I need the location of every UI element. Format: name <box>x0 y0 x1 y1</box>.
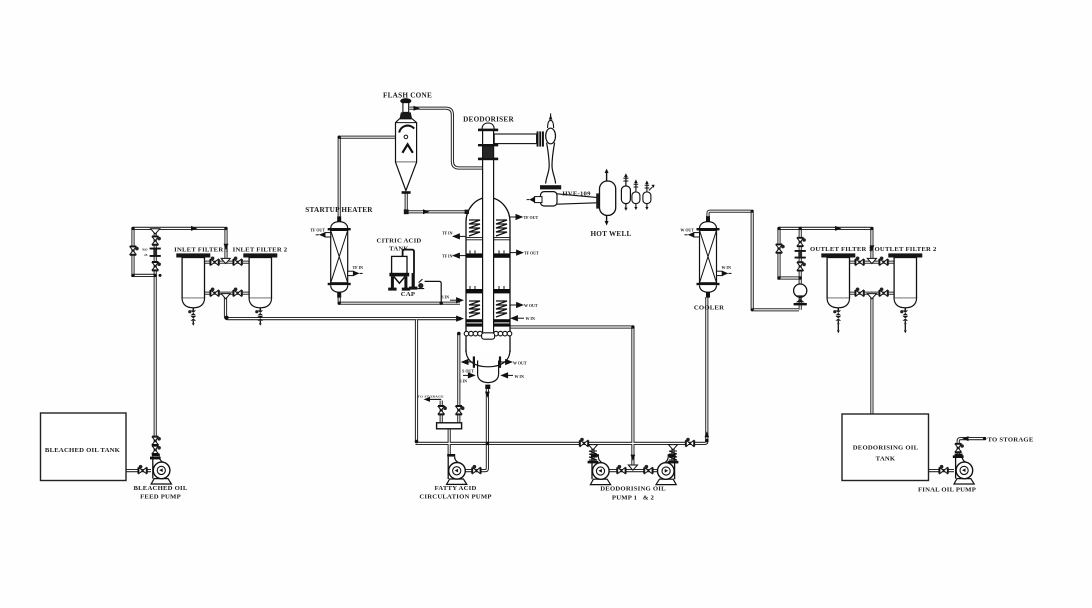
valve inlet riser lower <box>152 262 161 271</box>
deodorising oil tank <box>842 414 929 481</box>
valve outlet bypass stack lower <box>797 262 806 271</box>
svg-text:FINAL OIL PUMP: FINAL OIL PUMP <box>918 487 976 494</box>
wire storage takeoff drop <box>440 401 443 424</box>
valve inlet ic bottom left <box>210 288 219 297</box>
svg-text:W IN: W IN <box>526 316 535 321</box>
wire outlet bypass loop <box>779 228 800 278</box>
arrow cooler riser up <box>705 431 710 437</box>
coil pump2 <box>669 451 677 460</box>
wire inlet filters bottom interconnect <box>204 292 250 295</box>
svg-text:BLEACHED OIL TANK: BLEACHED OIL TANK <box>45 447 121 454</box>
svg-text:TANK: TANK <box>876 456 896 463</box>
valve inlet manifold funnel <box>151 229 160 234</box>
svg-text:W IN: W IN <box>515 374 524 379</box>
valve inlet riser upper <box>152 236 161 245</box>
arrow final discharge <box>962 436 968 441</box>
column top cap and demister <box>482 123 494 129</box>
coil pump1 <box>589 451 597 460</box>
wire oil feed line to column <box>226 296 462 319</box>
wire flash cone vapour line <box>410 108 484 168</box>
svg-text:TF OUT: TF OUT <box>310 228 325 233</box>
wire final pump suction <box>929 469 954 472</box>
valve inlet ic top left <box>210 257 219 266</box>
valve inlet bypass <box>130 246 139 255</box>
wire outlet filters bottom interconnect <box>850 292 894 295</box>
column bottom circles band <box>464 331 512 336</box>
fatty acid circulation pump <box>447 454 467 484</box>
wire heater bottom to column <box>339 295 460 303</box>
boot nozzle W OUT <box>501 361 506 363</box>
svg-text:INLET FILTER 2: INLET FILTER 2 <box>233 247 288 254</box>
svg-text:FATTY ACID: FATTY ACID <box>434 485 476 492</box>
nozzle W OUT right <box>510 304 517 306</box>
valve final discharge <box>955 443 964 452</box>
wire outlet filters top interconnect <box>850 261 894 264</box>
deodorising oil pump 1 <box>590 454 610 484</box>
arrow fatty riser down <box>485 392 490 398</box>
wire branch down to pump header <box>415 320 418 441</box>
reducer pump1 <box>588 445 597 450</box>
node corner dots <box>131 227 134 230</box>
svg-text:CITRIC ACID: CITRIC ACID <box>377 238 422 245</box>
wire final pump discharge to storage <box>958 439 984 456</box>
vapour duct to ejector <box>494 134 536 144</box>
svg-text:DEODORISER: DEODORISER <box>463 116 514 124</box>
wire column side outlet to pumps <box>510 327 633 468</box>
ejector HVE-109 <box>527 113 600 208</box>
wire between deodorising pumps <box>607 469 660 472</box>
svg-text:TF IN: TF IN <box>442 231 453 236</box>
valve header left <box>579 438 588 447</box>
wire inlet bypass loop <box>133 228 155 275</box>
wire inlet filters top interconnect <box>204 261 250 264</box>
svg-text:STARTUP HEATER: STARTUP HEATER <box>305 206 373 214</box>
svg-text:TF OUT: TF OUT <box>524 215 539 220</box>
wire filtered oil to tank <box>870 297 873 415</box>
column lower coils <box>469 301 507 317</box>
valve fatty discharge <box>472 465 481 474</box>
tee funnel between pumps <box>628 465 637 470</box>
nozzle S IN left <box>450 299 457 301</box>
fatty acid header drum <box>437 423 462 429</box>
wire outlet manifold <box>779 228 872 260</box>
wire to storage takeoff <box>430 398 441 400</box>
column bottom boot <box>478 361 499 383</box>
valve between pumps right <box>644 465 653 474</box>
node flash drain to column dot <box>404 209 469 214</box>
wire inlet top manifold <box>133 228 226 260</box>
svg-text:S IN: S IN <box>459 379 467 384</box>
svg-text:TO STORAGE: TO STORAGE <box>418 395 445 399</box>
valve inlet ic top right <box>233 257 242 266</box>
valve outlet ic bottom right <box>879 288 888 297</box>
arrow flash drain <box>423 209 429 214</box>
valve final suction <box>939 465 948 474</box>
column bottom dome <box>466 350 510 367</box>
wire column bottoms drop <box>457 334 460 424</box>
svg-text:TF OUT: TF OUT <box>524 251 539 256</box>
nozzle TF IN upper left <box>459 235 466 237</box>
svg-text:HVE-109: HVE-109 <box>562 191 591 198</box>
final oil pump <box>954 454 974 484</box>
valve inlet ic bottom right <box>233 288 242 297</box>
svg-text:W IN: W IN <box>722 265 731 270</box>
nozzle TF OUT upper right <box>510 216 516 218</box>
arrow pumps drop down <box>631 455 636 461</box>
venturi duct to hot well <box>557 194 597 204</box>
arrow outlet drop down <box>870 245 875 251</box>
startup heater <box>316 216 363 297</box>
nozzle tiny labels <box>310 215 731 384</box>
citric acid tank <box>388 250 441 302</box>
valve storage drop <box>438 406 447 415</box>
svg-text:OUTLET FILTER 2: OUTLET FILTER 2 <box>874 246 936 253</box>
wire pump1 suction stub <box>591 444 594 462</box>
bleached oil tank <box>41 413 127 481</box>
svg-text:RO: RO <box>142 247 147 251</box>
valve outlet ic top right <box>879 257 888 266</box>
valve outlet ic bottom left <box>855 288 864 297</box>
nozzle TF IN mid left <box>459 255 466 257</box>
tee funnel outlet ic top <box>867 258 876 263</box>
cooler <box>685 216 732 297</box>
svg-text:HOT WELL: HOT WELL <box>590 230 631 238</box>
arrow inlet drop down <box>224 244 229 250</box>
restriction orifice outlet stack <box>795 250 806 259</box>
svg-text:DEODORISING OIL: DEODORISING OIL <box>853 445 919 452</box>
tee funnel outlet ic bottom <box>867 294 876 299</box>
valve header right <box>685 438 694 447</box>
valve outlet bypass stack upper <box>797 237 806 246</box>
wire outlet bypass stack <box>799 228 802 309</box>
catch pot 2 <box>632 179 640 210</box>
hot well vessel <box>600 169 616 226</box>
svg-text:TO STORAGE: TO STORAGE <box>988 437 1034 444</box>
deodorising oil pump 2 <box>656 454 676 484</box>
valve bleached suction <box>138 465 147 474</box>
svg-text:FLASH CONE: FLASH CONE <box>383 92 432 100</box>
svg-text:CIRCULATION PUMP: CIRCULATION PUMP <box>419 494 491 501</box>
arrow flash vapour <box>414 106 420 111</box>
svg-text:COOLER: COOLER <box>694 305 724 312</box>
cap dosing pump <box>418 283 423 288</box>
bleached oil feed pump <box>151 454 171 484</box>
wire fatty pump discharge <box>464 389 487 471</box>
column nozzles <box>450 215 524 378</box>
arrow outlet manifold <box>835 226 841 231</box>
svg-text:OUTLET FILTER 1: OUTLET FILTER 1 <box>810 246 872 253</box>
restriction orifice inlet riser <box>142 247 160 257</box>
svg-text:TF IN: TF IN <box>442 254 453 259</box>
svg-text:DEODORISING OIL: DEODORISING OIL <box>600 486 666 493</box>
catch pot 3 <box>643 180 655 210</box>
tee funnel inlet ic top <box>221 258 230 263</box>
svg-text:W OUT: W OUT <box>680 228 694 233</box>
svg-text:W OUT: W OUT <box>524 303 538 308</box>
column shell <box>466 197 510 352</box>
nozzle feed arrow at column <box>457 316 463 321</box>
control valve outlet <box>794 284 807 305</box>
wire heater top to flash cone <box>339 137 404 216</box>
svg-text:TF IN: TF IN <box>353 265 364 270</box>
svg-text:PUMP 1 & 2: PUMP 1 & 2 <box>612 495 655 502</box>
catch pot 1 <box>621 173 630 211</box>
column upper coils <box>469 220 507 236</box>
arrow manifold right <box>191 226 197 231</box>
svg-text:BLEACHED OIL: BLEACHED OIL <box>133 485 187 492</box>
svg-text:INLET FILTER 1: INLET FILTER 1 <box>174 247 229 254</box>
svg-text:FEED PUMP: FEED PUMP <box>140 494 181 501</box>
nozzle W IN right <box>517 317 524 319</box>
svg-text:S OUT: S OUT <box>462 369 474 374</box>
reducer pump2 <box>668 445 677 450</box>
flash cone vessel <box>396 98 417 194</box>
boot nozzle S IN <box>463 374 468 376</box>
valve outlet ic top left <box>855 257 864 266</box>
outlet filter 2 vessel <box>888 253 922 325</box>
wire flash cone drain <box>406 193 466 212</box>
svg-text:CAP: CAP <box>401 291 415 298</box>
valve bottoms drop <box>456 406 465 415</box>
svg-text:W OUT: W OUT <box>513 361 527 366</box>
column central pipe <box>483 129 494 334</box>
svg-text:S IN: S IN <box>441 295 449 300</box>
boot nozzle S OUT <box>468 361 473 363</box>
wire cap line <box>425 281 442 302</box>
outlet filter drain extensions <box>838 325 905 330</box>
valve between pumps left <box>617 465 626 474</box>
svg-text:25: 25 <box>144 253 148 257</box>
valve bleached riser pair <box>152 436 161 445</box>
wire fatty pump suction <box>448 429 451 455</box>
wire cooler top loop <box>708 211 799 310</box>
wire main pump header to cooler <box>416 297 707 443</box>
wire bleached tank suction <box>126 469 151 472</box>
svg-text:TANK: TANK <box>389 246 409 253</box>
valve outlet loop <box>776 244 785 253</box>
wire pump2 suction stub <box>671 444 674 462</box>
inlet filter 2 vessel <box>243 253 277 325</box>
wire bleached oil riser <box>154 228 157 454</box>
nozzle TF OUT mid right <box>510 252 517 254</box>
column internal trays <box>466 238 510 240</box>
outlet filter 1 vessel <box>821 253 855 325</box>
deodoriser column <box>464 123 544 389</box>
inlet filter 1 vessel <box>176 253 210 325</box>
tee funnel inlet ic bottom <box>221 294 230 299</box>
boot nozzle W IN <box>508 374 513 376</box>
